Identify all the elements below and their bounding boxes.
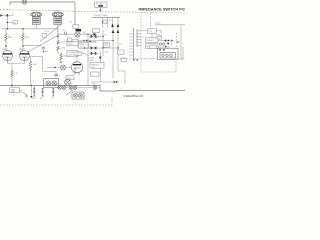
resistor R6 <box>57 46 66 51</box>
arrowhead P2 <box>117 24 120 27</box>
node dot <box>57 36 58 37</box>
wire b1 <box>5 29 7 33</box>
svg-text:LUG: LUG <box>11 91 15 93</box>
label box N18 <box>103 20 107 23</box>
coupling cap box <box>43 34 47 38</box>
wire b2 <box>22 29 24 33</box>
wire plate riser <box>30 57 32 62</box>
power switch box <box>73 25 79 29</box>
node dot <box>60 61 61 62</box>
lamp I6 <box>69 84 77 90</box>
resistor R5 <box>57 40 66 45</box>
svg-text:FEEDBACK: FEEDBACK <box>124 94 145 98</box>
wire plate link <box>31 56 43 58</box>
speaker jack SP1 <box>32 86 37 100</box>
node dot <box>102 47 103 48</box>
svg-text:470K: 470K <box>63 56 68 58</box>
wire gnd stub <box>30 86 32 97</box>
label box N19 <box>121 58 126 62</box>
node dot <box>54 67 55 68</box>
wire tick <box>176 41 180 43</box>
svg-text:TRANS: TRANS <box>88 59 95 62</box>
svg-text:4-8-16: 4-8-16 <box>155 23 160 25</box>
connector bowtie <box>114 81 117 83</box>
label box N15 <box>150 45 156 49</box>
label box N13 <box>10 88 19 94</box>
wire inverter drop <box>42 57 44 72</box>
svg-text:POWER TRANS: POWER TRANS <box>94 14 109 17</box>
terminal strip TS2 <box>129 28 134 60</box>
svg-text:220K: 220K <box>61 42 66 44</box>
svg-text:6X4: 6X4 <box>83 32 86 34</box>
wire AC top line <box>10 2 75 5</box>
label box N14 <box>93 29 100 33</box>
wire input <box>3 14 13 16</box>
label box N17 <box>66 76 74 80</box>
speaker jack SP3 <box>51 88 54 100</box>
node dot <box>89 41 90 42</box>
svg-text:5Y3: 5Y3 <box>104 45 107 47</box>
wire cross links <box>99 41 119 49</box>
wire splitter <box>57 29 59 53</box>
input jack J1 <box>0 14 2 16</box>
svg-text:TO V3: TO V3 <box>44 31 49 33</box>
node dot <box>11 85 12 86</box>
wire under fuse <box>66 41 96 43</box>
wire cr2 <box>99 52 101 63</box>
svg-text:.02: .02 <box>13 22 16 24</box>
wire diagonal D2 <box>27 35 58 52</box>
dark diode CR2 <box>99 57 102 60</box>
resistor R4 <box>29 61 37 71</box>
label box N3 <box>67 50 78 56</box>
wire v2 top <box>76 52 78 62</box>
wire sw links <box>158 41 174 48</box>
label box N1 <box>95 2 108 8</box>
wire ht risers <box>113 28 118 78</box>
wire tap <box>7 22 13 24</box>
node dot <box>102 21 103 22</box>
box with lamps <box>44 79 59 88</box>
jack circles <box>159 43 164 45</box>
svg-text:117V: 117V <box>109 20 114 22</box>
label box N16 <box>74 52 82 55</box>
svg-text:SW: SW <box>159 36 162 38</box>
speaker box N10 <box>158 48 179 59</box>
resistor R1 <box>5 33 13 43</box>
node dot <box>137 59 138 60</box>
wire lamp row <box>47 67 72 69</box>
node dot <box>112 40 113 41</box>
wire bottom link <box>66 87 100 89</box>
node dot <box>83 40 84 41</box>
wire n7 link <box>142 31 162 38</box>
wire coupling <box>23 45 42 47</box>
diode pair CR3 <box>89 35 101 39</box>
wire sw left <box>58 33 75 35</box>
triode V1B <box>19 48 30 61</box>
ground sym <box>25 95 27 98</box>
tube socket S1 <box>31 10 42 24</box>
tube V2 <box>72 62 83 75</box>
wire right edge <box>181 25 183 61</box>
diode pair CR4 <box>89 46 99 50</box>
svg-text:MEG: MEG <box>25 37 30 39</box>
speaker jack SP2 <box>40 88 44 100</box>
node dot <box>102 36 103 37</box>
terminal strip TS1 <box>137 29 142 47</box>
node dot <box>87 34 88 35</box>
label box N8 <box>146 38 159 43</box>
label box N5 <box>104 43 110 47</box>
dashed chassis bottom <box>0 97 112 105</box>
wire step right <box>100 84 185 91</box>
wire diagonal D1 <box>40 24 63 42</box>
wire fb corner <box>118 57 125 84</box>
node dot <box>177 41 179 43</box>
wire n11 drop <box>99 68 101 82</box>
label box N2 <box>67 40 78 46</box>
capacitor C5 <box>54 72 58 79</box>
svg-text:IMPEDANCE SWITCH POS: IMPEDANCE SWITCH POS <box>139 8 186 12</box>
wire sw right <box>80 33 96 35</box>
capacitor C4 <box>42 46 48 53</box>
resistor R2 <box>22 33 30 43</box>
svg-text:100K: 100K <box>33 64 38 66</box>
capacitor C2 <box>63 30 67 36</box>
svg-text:220K: 220K <box>61 48 66 50</box>
wire right risers <box>87 34 89 85</box>
label box N12 <box>91 72 100 76</box>
ground bus <box>0 85 100 87</box>
node dot <box>86 40 87 41</box>
gnd arrow <box>30 96 32 98</box>
wire arrow to transformer <box>100 8 102 11</box>
node dot <box>22 45 23 46</box>
node dot <box>117 47 118 48</box>
wire r1 drop <box>5 43 7 52</box>
node dot <box>31 85 32 86</box>
svg-text:T1: T1 <box>31 90 33 92</box>
wire input bus <box>6 16 8 29</box>
scattered value labels <box>13 22 162 97</box>
wire grid bus <box>2 28 59 30</box>
svg-text:SW: SW <box>69 22 72 24</box>
svg-text:B+ 360: B+ 360 <box>91 42 97 44</box>
svg-text:MEG: MEG <box>8 37 13 39</box>
svg-text:.05: .05 <box>63 30 66 32</box>
wire T1 legs <box>103 17 119 28</box>
dashed chassis top right <box>0 10 185 13</box>
node dot <box>7 22 8 23</box>
lamp I7 <box>92 84 97 90</box>
lamp I3 <box>61 65 66 70</box>
resistor R7 <box>60 53 68 61</box>
switch SW1 contacts <box>165 40 173 48</box>
capacitor C1 blob <box>7 14 9 17</box>
svg-text:250V: 250V <box>68 54 73 56</box>
wire socket S2 drops <box>57 24 59 34</box>
wire diag n13 <box>19 91 26 95</box>
svg-text:8 OHM: 8 OHM <box>147 40 153 42</box>
svg-text:SP2: SP2 <box>69 84 72 86</box>
wire bias row <box>78 41 99 49</box>
svg-text:350V: 350V <box>68 44 73 46</box>
dashed drop A <box>141 13 176 73</box>
wire socket S1 drops <box>35 24 37 29</box>
wire fuse drop <box>74 2 76 25</box>
wire tap line <box>155 24 185 26</box>
triode V1A <box>2 48 13 61</box>
wire v2 link <box>43 71 57 73</box>
dashed jack row <box>120 58 185 60</box>
wire cathode join <box>8 61 25 70</box>
wire r4 gnd <box>30 71 32 86</box>
dashed jack lines <box>176 33 178 47</box>
lamp I4 <box>65 79 71 85</box>
svg-text:SP1: SP1 <box>57 84 60 86</box>
lamp I2 <box>75 32 80 37</box>
label box N9 <box>146 44 159 49</box>
svg-text:1N4: 1N4 <box>98 36 101 38</box>
node dot <box>7 28 8 29</box>
wire x103 riser <box>102 30 104 56</box>
tube socket S2 <box>52 10 63 24</box>
svg-text:AC LINE: AC LINE <box>96 2 103 5</box>
label box N11 <box>90 63 104 69</box>
box pilot pair <box>72 92 84 99</box>
label box N4 <box>79 43 89 49</box>
label box N7 <box>148 29 157 34</box>
wire ps bottom <box>91 81 118 83</box>
resistor R12 <box>156 35 161 39</box>
node dot <box>22 28 23 29</box>
label box N6 <box>118 50 125 54</box>
pilot lamp I1 <box>22 0 26 4</box>
arrowhead P3 <box>112 30 115 33</box>
dashed drop B <box>150 13 152 29</box>
arrowhead P4 <box>117 30 120 33</box>
svg-text:20: 20 <box>120 43 122 45</box>
arrowhead P1 <box>111 24 114 27</box>
wire diag n3 <box>79 52 90 56</box>
diode pair CR5 <box>89 52 99 55</box>
wire cathode gnd <box>11 77 13 85</box>
wire r2 drop <box>22 43 24 52</box>
fuse bar F1 <box>76 29 82 31</box>
wire diag bottom <box>66 89 74 95</box>
node dot <box>5 45 6 46</box>
label box grid <box>13 21 18 25</box>
wire T1 top <box>92 16 120 18</box>
node dot <box>84 47 85 48</box>
svg-text:EXT: EXT <box>40 98 43 100</box>
resistor R3 <box>11 70 19 77</box>
arrowhead <box>100 10 102 12</box>
diode CR1 <box>94 33 97 36</box>
node dot <box>133 59 134 60</box>
lamp I5 <box>57 84 66 90</box>
capacitor C3 <box>68 38 72 41</box>
